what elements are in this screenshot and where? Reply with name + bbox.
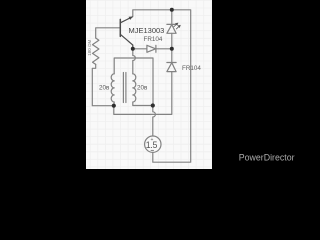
transformer core [123, 73, 126, 103]
inductor L2 right winding [133, 74, 153, 106]
schematic paper strip [86, 0, 212, 169]
wire: LED anode to mid dot to diode D3 [171, 33, 173, 62]
wire: top rail, right rail, bottom rail to battery minus [133, 10, 191, 162]
diode D1 FR104 (triangle and cathode bar) [147, 45, 156, 52]
wire: base wire and resistor top lead [96, 28, 120, 38]
wire: resistor bottom to left rail to left dot [92, 64, 114, 105]
node: left winding bottom [112, 104, 116, 108]
svg-text:180 OM: 180 OM [87, 39, 92, 55]
node: collector/diode junction [131, 47, 135, 51]
diode D3 FR104 vertical (cathode bar and triangle) [167, 63, 176, 72]
wire: D1 cathode to node B [156, 48, 172, 50]
resistor R1 zigzag [92, 38, 98, 64]
node: D1 cathode / LED anode [170, 47, 174, 51]
wire: emitter dot down with hop to right coil top [133, 49, 136, 74]
LED D2 (cathode bar and triangle) [167, 24, 176, 33]
svg-text:PowerDirector: PowerDirector [239, 152, 295, 162]
node: top rail / LED [170, 8, 174, 12]
svg-text:FR104: FR104 [144, 36, 163, 43]
wire: battery top lead with hop over lower wire [153, 106, 156, 136]
LED light arrows [174, 23, 181, 29]
wires [92, 10, 190, 162]
svg-text:FR104: FR104 [182, 65, 201, 72]
video background [0, 0, 300, 169]
wire: left dot down, lower horizontal, up to diode anode [114, 72, 172, 115]
wire: emitter dot to diode D1 [133, 48, 147, 50]
svg-text:MJE13003: MJE13003 [129, 26, 165, 35]
wire: transformer top bar from left coil top to right side down to right dot [114, 58, 153, 106]
node: right winding bottom / battery plus [151, 103, 155, 107]
wire: top rail dot down to LED [171, 10, 173, 25]
svg-text:20в: 20в [99, 84, 110, 91]
svg-text:20в: 20в [137, 84, 148, 91]
transistor Q1 MJE13003 [120, 17, 133, 49]
svg-text:1.5: 1.5 [146, 140, 158, 150]
inductor L1 left winding [111, 74, 114, 106]
battery V1 1.5V (circle, polarity marks, value) [145, 136, 161, 152]
